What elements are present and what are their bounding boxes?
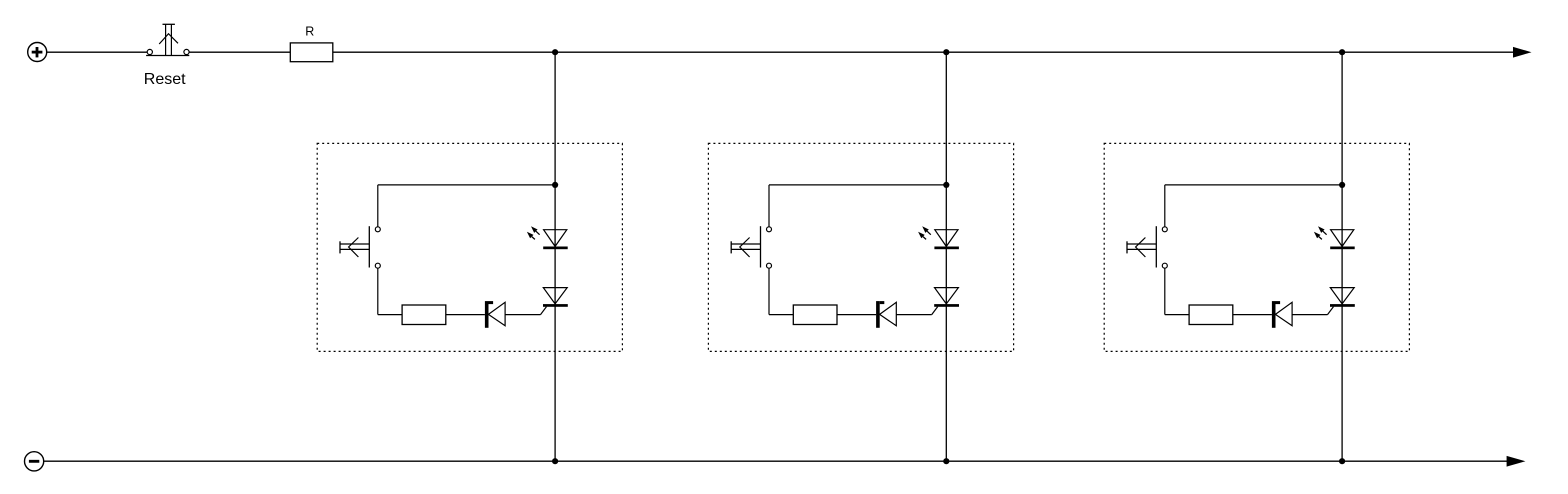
svg-text:R: R [305, 25, 314, 39]
svg-text:Reset: Reset [144, 71, 186, 88]
